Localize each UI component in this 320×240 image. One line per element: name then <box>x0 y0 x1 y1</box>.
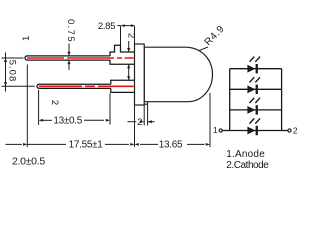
svg-text:17.55±1: 17.55±1 <box>69 139 104 150</box>
svg-text:2: 2 <box>49 100 60 105</box>
svg-text:1.Anode: 1.Anode <box>226 149 265 160</box>
svg-text:1: 1 <box>213 125 218 135</box>
svg-text:5.08: 5.08 <box>7 60 18 83</box>
svg-text:13.65: 13.65 <box>159 139 183 150</box>
svg-text:2: 2 <box>126 33 137 38</box>
svg-text:2.0±0.5: 2.0±0.5 <box>12 155 45 167</box>
svg-text:2: 2 <box>293 125 298 135</box>
svg-text:1: 1 <box>21 36 32 41</box>
svg-text:2.Cathode: 2.Cathode <box>226 160 269 171</box>
svg-text:13±0.5: 13±0.5 <box>53 115 82 126</box>
svg-text:0.75: 0.75 <box>65 19 76 43</box>
svg-text:2: 2 <box>137 117 142 128</box>
svg-text:2.85: 2.85 <box>98 21 115 32</box>
